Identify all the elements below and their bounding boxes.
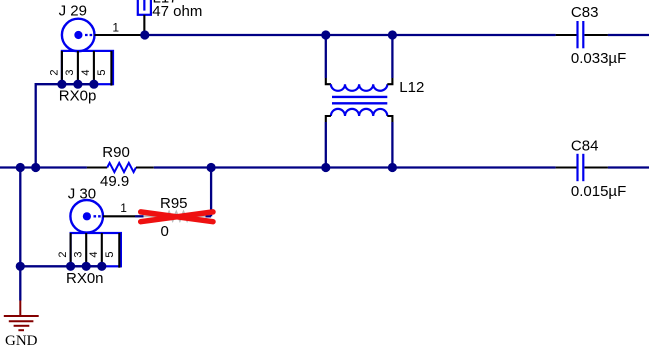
connector J29 (coax circle): [62, 19, 95, 52]
junction RX0p branch: [31, 163, 40, 172]
svg-text:0.033µF: 0.033µF: [571, 50, 626, 67]
wire top right edge: [608, 34, 649, 36]
svg-text:5: 5: [96, 69, 108, 75]
wire R95 right: [206, 215, 212, 217]
wire RX0p pins to left: [36, 84, 94, 167]
junction RX0n pin4: [97, 262, 106, 271]
svg-text:1: 1: [112, 20, 119, 34]
L17 pin wire: [143, 15, 145, 35]
resistor R90: [87, 163, 154, 172]
junction RX0n pin2: [66, 262, 75, 271]
junction RX0p pin4: [89, 80, 98, 89]
svg-text:4: 4: [88, 252, 100, 258]
resistor R95 (DNP, grey): [144, 212, 206, 220]
L12 pin bottom-left: [326, 116, 331, 122]
svg-text:C84: C84: [571, 137, 599, 154]
wire middle rail left: [0, 166, 87, 168]
svg-text:RX0p: RX0p: [59, 88, 97, 105]
junction GND branch: [16, 163, 25, 172]
svg-text:2: 2: [57, 252, 69, 258]
junction RX0n pin3: [82, 262, 91, 271]
L12 pin top-left: [326, 78, 331, 84]
svg-text:2: 2: [48, 69, 60, 75]
svg-text:49.9: 49.9: [100, 173, 129, 190]
capacitor C83: [556, 21, 608, 48]
svg-text:3: 3: [64, 69, 76, 75]
svg-text:C83: C83: [571, 4, 599, 21]
J30 pin 1 wire: [103, 215, 135, 217]
junction middle transformer right: [388, 163, 397, 172]
L12 primary winding: [331, 84, 387, 91]
svg-text:0.015µF: 0.015µF: [571, 183, 626, 200]
svg-text:0: 0: [161, 223, 169, 240]
wire secondary right vertical: [391, 122, 393, 168]
wire RX0n row: [20, 265, 102, 267]
capacitor C84: [556, 154, 608, 181]
wire J30 to R95: [135, 215, 144, 217]
J29 pin 1 wire: [95, 34, 145, 36]
svg-text:4: 4: [80, 69, 92, 75]
svg-text:RX0n: RX0n: [66, 270, 104, 287]
svg-text:L12: L12: [399, 79, 424, 96]
junction RX0p pin2: [57, 80, 66, 89]
svg-text:R95: R95: [160, 195, 188, 212]
wire middle rail center: [154, 166, 556, 168]
svg-text:J 30: J 30: [68, 185, 96, 202]
wire top rail: [145, 34, 556, 36]
svg-text:1: 1: [120, 201, 127, 215]
junction R95 branch: [207, 163, 216, 172]
junction top transformer right: [388, 30, 397, 39]
L12 core: [332, 96, 387, 98]
svg-text:47 ohm: 47 ohm: [152, 3, 202, 20]
junction RX0n branch: [16, 262, 25, 271]
svg-text:GND: GND: [5, 333, 38, 349]
R95 DNP cross: [141, 212, 213, 222]
transformer L12: [326, 35, 393, 168]
L12 pin top-right: [387, 78, 392, 84]
wire primary right vertical: [391, 35, 393, 78]
svg-text:J 29: J 29: [59, 2, 87, 19]
connector J30 (coax circle): [70, 200, 103, 233]
ferrite bead L17 (body, cut off at top): [138, 0, 151, 15]
svg-text:R90: R90: [102, 144, 130, 161]
wire secondary left vertical: [325, 122, 327, 168]
L12 pin bottom-right: [387, 116, 392, 122]
junction top at L17: [140, 30, 149, 39]
junction RX0p pin3: [73, 80, 82, 89]
connector body RX0n: [71, 233, 121, 268]
wire primary left vertical: [325, 35, 327, 78]
wire middle right edge: [608, 166, 649, 168]
connector body RX0p: [62, 51, 113, 86]
junction middle transformer left: [321, 163, 330, 172]
wire GND vertical: [19, 168, 21, 301]
svg-text:3: 3: [73, 252, 85, 258]
L12 secondary winding: [331, 109, 387, 116]
svg-text:5: 5: [104, 252, 116, 258]
junction top transformer left: [321, 30, 330, 39]
wire R95 branch vertical: [210, 168, 212, 217]
ground GND symbol: [4, 301, 39, 331]
